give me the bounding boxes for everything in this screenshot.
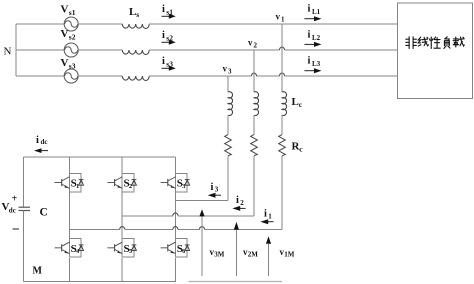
svg-text:c: c: [299, 100, 303, 109]
svg-text:dc: dc: [41, 138, 48, 146]
branch v2 vertical lower: [253, 156, 255, 216]
wire row1 source to Ls: [78, 23, 122, 25]
svg-text:i: i: [162, 56, 165, 67]
svg-text:i: i: [308, 4, 311, 15]
nonlinear load box: [397, 3, 472, 99]
svg-text:1: 1: [76, 183, 79, 190]
wire row2 to load with hop at v1: [149, 49, 397, 51]
svg-text:C: C: [40, 207, 48, 219]
svg-text:+: +: [12, 194, 18, 205]
resistor Rc branch3: [225, 135, 232, 156]
svg-text:s: s: [136, 10, 139, 19]
leg 2 vertical segments: [121, 157, 123, 174]
svg-text:N: N: [4, 46, 12, 58]
branch v2 vertical upper: [253, 50, 255, 92]
char 性: [429, 37, 440, 49]
svg-text:s3: s3: [69, 62, 76, 71]
inductor Lc branch1: [282, 92, 287, 116]
inductor Ls row3: [122, 76, 149, 81]
minus sign: [13, 228, 20, 230]
svg-text:i: i: [162, 4, 165, 15]
branch v3 vertical upper: [227, 76, 229, 92]
leg 1 vertical segments: [68, 157, 70, 174]
switch S5: [107, 239, 136, 258]
svg-text:dc: dc: [9, 207, 16, 215]
resistor Rc branch1: [279, 135, 286, 156]
svg-text:i: i: [211, 182, 214, 193]
char 非: [406, 37, 417, 49]
svg-text:3M: 3M: [214, 251, 225, 259]
resistor Rc branch2: [251, 135, 258, 156]
svg-text:1M: 1M: [284, 251, 295, 259]
nonlinear load label 非线性负载 (drawn strokes): [406, 37, 464, 49]
svg-text:v: v: [248, 38, 253, 48]
wire row1 left: [16, 23, 64, 25]
wire row3 source to Ls: [78, 75, 122, 77]
svg-text:v: v: [276, 12, 281, 22]
inverter left rail upper: [23, 157, 25, 207]
svg-text:L2: L2: [312, 34, 321, 42]
svg-text:2: 2: [240, 199, 244, 207]
voltage arrow v2M: [234, 222, 239, 230]
output line i2 with hop at leg3: [122, 215, 254, 217]
switch S6: [161, 239, 190, 258]
capacitor C: [19, 206, 31, 208]
branch v1 vertical upper: [281, 24, 283, 92]
voltage arrow v3M: [199, 209, 204, 216]
svg-text:i: i: [264, 209, 267, 220]
svg-text:i: i: [236, 195, 239, 206]
inverter bottom rail: [24, 281, 177, 283]
wire row3 to load with hops at v2 and v1: [149, 75, 397, 77]
wire row3 left: [16, 75, 64, 77]
char 线: [418, 37, 428, 46]
M rail extension: [189, 281, 283, 283]
svg-text:i: i: [162, 30, 165, 41]
svg-text:i: i: [308, 30, 311, 41]
svg-text:i: i: [36, 135, 39, 146]
svg-text:2: 2: [129, 183, 132, 190]
switch S3: [161, 173, 190, 192]
svg-text:2: 2: [254, 42, 258, 50]
svg-text:L: L: [129, 6, 136, 18]
switch S2: [107, 173, 136, 192]
svg-text:s2: s2: [69, 33, 76, 42]
inverter left rail lower: [23, 211, 25, 282]
source Vs3: [64, 69, 78, 83]
source Vs2: [64, 43, 78, 57]
output line i1 with hops at leg2, leg3, v3M: [69, 229, 282, 231]
switch S1: [55, 173, 84, 192]
svg-text:2M: 2M: [248, 251, 258, 259]
svg-text:V: V: [61, 57, 69, 69]
inductor Lc branch2: [254, 92, 259, 116]
svg-text:L3: L3: [312, 60, 321, 68]
svg-text:3: 3: [215, 185, 219, 193]
current i2 arrow: [232, 206, 240, 211]
svg-text:L: L: [292, 96, 299, 108]
svg-text:s1: s1: [69, 8, 76, 17]
char 载: [453, 37, 464, 47]
current i1 arrow: [260, 219, 268, 224]
inductor Ls row2: [122, 50, 149, 55]
svg-text:1: 1: [281, 16, 285, 24]
inductor Ls row1: [122, 24, 149, 29]
inverter top rail: [24, 156, 176, 158]
svg-text:1: 1: [268, 212, 272, 220]
branch v1 vertical lower: [281, 156, 283, 230]
char 负: [444, 37, 450, 49]
svg-text:V: V: [61, 4, 69, 16]
svg-text:M: M: [33, 266, 43, 277]
svg-text:L1: L1: [312, 8, 321, 16]
switch S4: [55, 239, 84, 258]
svg-text:i: i: [308, 56, 311, 67]
leg 3 vertical segments: [174, 157, 176, 174]
branch v3 vertical lower: [227, 156, 229, 201]
source Vs1: [64, 17, 78, 31]
current i3 arrow: [208, 193, 216, 198]
svg-text:v: v: [223, 64, 228, 74]
output line i3: [175, 200, 228, 202]
voltage arrow v1M: [266, 236, 271, 243]
wire row2 source to Ls: [78, 49, 122, 51]
svg-text:3: 3: [228, 68, 232, 76]
svg-text:c: c: [299, 145, 303, 154]
inductor Lc branch3: [228, 92, 233, 116]
wire row2 left: [16, 49, 64, 51]
node N bus: [15, 24, 17, 76]
svg-text:V: V: [61, 28, 69, 40]
wire row1 to load: [149, 23, 397, 25]
